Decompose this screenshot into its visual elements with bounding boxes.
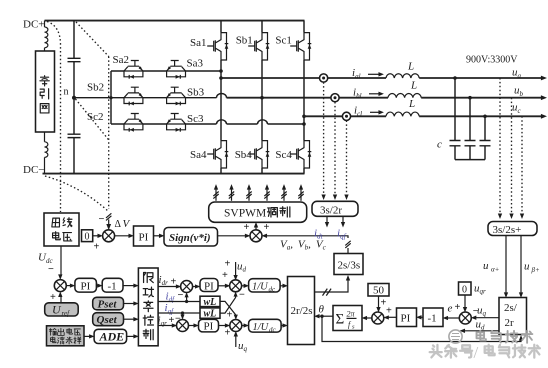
svg-text:−: − xyxy=(178,290,184,301)
wire inverter leg a xyxy=(220,21,222,174)
wire phase a line xyxy=(221,77,544,79)
stationary-to-rotating box 2s/2r xyxy=(499,298,527,335)
svg-text:θ: θ xyxy=(319,304,325,316)
svg-text:Qset: Qset xyxy=(97,314,118,326)
svg-text:Sa1: Sa1 xyxy=(190,37,207,49)
PI controller d-axis box xyxy=(200,279,218,292)
wire clamp row c xyxy=(111,123,304,125)
svg-text:3s/2r: 3s/2r xyxy=(320,204,342,216)
PI controller voltage-balance box xyxy=(134,226,154,246)
wire clamp row a xyxy=(111,70,221,72)
wire DC- rail xyxy=(43,173,305,175)
wire PI to q output junction xyxy=(219,325,227,327)
svg-text:+: + xyxy=(386,306,392,317)
svg-text:Sc4: Sc4 xyxy=(275,149,292,161)
svg-text:−: − xyxy=(48,264,54,275)
wire -1 to limiter xyxy=(123,285,135,287)
wire clamp bus xyxy=(110,71,112,124)
inductor L phase c xyxy=(386,112,419,116)
dotted current sense b xyxy=(334,102,336,196)
crossover hops row c over legs a and b xyxy=(217,120,268,124)
reference box U_ref xyxy=(45,303,78,316)
feedforward box 50 xyxy=(368,284,389,297)
svg-text:Sb3: Sb3 xyxy=(187,87,205,99)
wire theta to 2s/2r bottom xyxy=(322,316,521,341)
sign-function box Sign(v*i) xyxy=(164,228,218,247)
PI controller pll box xyxy=(397,308,417,327)
PI controller dc-voltage box xyxy=(75,278,97,292)
watermark text line2 头条号/电气技术 xyxy=(430,345,442,357)
svg-text:2r/2s: 2r/2s xyxy=(291,305,313,317)
wire Udc junction to PI xyxy=(66,285,72,287)
capacitor dc-link lower xyxy=(68,134,81,137)
wire wL lower cross to d junction xyxy=(220,295,236,314)
transistor Sa3 xyxy=(167,61,186,79)
svg-text:wL: wL xyxy=(204,308,217,319)
SVPWM modulation box xyxy=(209,202,307,222)
svg-text:1/U: 1/U xyxy=(253,322,270,333)
wire pll junction to sigma xyxy=(365,317,372,319)
zero box uqr xyxy=(459,282,472,295)
break mark on dV line xyxy=(106,213,111,220)
wire 2s/2r uq output xyxy=(474,317,499,319)
wire u_q up arrow xyxy=(235,334,237,347)
svg-text:+: + xyxy=(455,302,461,313)
gain box 1/Udc lower xyxy=(249,319,282,332)
dotted voltage sense a xyxy=(499,78,501,215)
wire e junction to -1 xyxy=(446,317,460,319)
zero reference box xyxy=(82,230,93,242)
set-point box Pset xyxy=(93,297,124,310)
wire PI to -1 xyxy=(96,285,99,287)
junction leg b phase xyxy=(260,96,264,100)
svg-text:2s/3s: 2s/3s xyxy=(338,260,361,272)
wire i_dr to junction xyxy=(158,286,178,288)
svg-text:dc: dc xyxy=(269,326,277,334)
wire Udc to junction xyxy=(60,246,62,276)
wire 50 to pll junction xyxy=(378,296,380,309)
dotted voltage sense c xyxy=(521,116,523,214)
wire Qset to limiter xyxy=(124,318,136,320)
junction theta branch xyxy=(320,315,323,318)
svg-text:PI: PI xyxy=(401,313,411,325)
svg-text:ADE: ADE xyxy=(99,330,125,344)
wire 2s/2r ud output xyxy=(463,330,499,332)
svg-text:u: u xyxy=(483,260,489,272)
svg-text:PI: PI xyxy=(139,232,149,244)
svg-text:Sb1: Sb1 xyxy=(236,35,253,47)
svg-text:L: L xyxy=(410,80,417,92)
transistor Sc1 xyxy=(290,33,311,60)
three-phase to stationary box 3s/2s+ xyxy=(488,222,537,236)
wire dV junction to PI xyxy=(114,235,130,237)
wire u_d down arrow xyxy=(235,262,237,277)
summing junction q-output xyxy=(230,320,242,332)
wire i_qr to junction xyxy=(158,325,174,327)
svg-text:L: L xyxy=(408,98,415,110)
summing junction Udc xyxy=(54,280,66,292)
junction leg c phase xyxy=(302,115,306,119)
svg-text:+: + xyxy=(227,310,233,321)
svg-text:c: c xyxy=(437,139,442,151)
svg-text:+: + xyxy=(171,277,177,288)
svg-text:1/U: 1/U xyxy=(252,282,269,293)
wire Uref to junction xyxy=(60,295,62,303)
junction leg c clamp xyxy=(302,122,306,126)
svg-text:50: 50 xyxy=(373,285,385,297)
wire d junction to PI xyxy=(192,286,197,288)
inductor traction bottom coil xyxy=(45,132,48,174)
summing junction pll xyxy=(372,312,384,324)
svg-text:Sb2: Sb2 xyxy=(87,82,104,94)
crossover hop row b over leg a xyxy=(217,94,227,98)
svg-text:β+: β+ xyxy=(531,266,540,274)
svg-text:0: 0 xyxy=(462,285,467,296)
wL box lower xyxy=(200,308,220,318)
wire i_qf line with branch xyxy=(158,312,200,314)
svg-text:2π: 2π xyxy=(347,310,356,319)
dashed sense line Udc xyxy=(47,22,61,213)
svg-text:Σ: Σ xyxy=(336,312,345,328)
svg-text:PI: PI xyxy=(204,321,214,333)
svg-text:0: 0 xyxy=(85,232,90,243)
integrator box sigma 2pi/fs xyxy=(333,306,362,331)
svg-text:Pset: Pset xyxy=(98,298,118,310)
wire dc-link leg xyxy=(73,21,75,174)
junction leg a clamp xyxy=(219,69,223,73)
svg-text:Sa4: Sa4 xyxy=(190,149,207,161)
svg-text:−: − xyxy=(239,290,245,301)
svg-text:dc: dc xyxy=(269,286,277,294)
svg-text:ref: ref xyxy=(62,310,71,318)
transistor Sa2 xyxy=(124,61,143,79)
gain box 1/Udc upper xyxy=(249,279,281,292)
current sensor phase c xyxy=(342,112,350,120)
svg-text:Sa3: Sa3 xyxy=(187,58,204,70)
svg-text:PI: PI xyxy=(204,280,214,292)
set-point box Qset xyxy=(93,313,124,326)
svg-text:+: + xyxy=(94,242,100,253)
svg-text:2r: 2r xyxy=(505,317,515,329)
wire PI to pll junction xyxy=(387,316,397,318)
wire q junction to 1/Udc xyxy=(242,325,246,327)
junction filter cap tap c xyxy=(483,115,487,119)
arrowhead phase b output u_b xyxy=(541,95,547,100)
svg-text:Sa2: Sa2 xyxy=(113,54,130,66)
wire PI to d output junction xyxy=(218,285,227,287)
bus-voltage box 母线电压 xyxy=(44,213,79,246)
svg-text:/: / xyxy=(474,343,479,362)
wire junction to SVPWM xyxy=(255,225,257,230)
summing junction before SVPWM xyxy=(250,230,262,242)
svg-text:2s/: 2s/ xyxy=(504,302,518,314)
wire 3s/2r output i_qf xyxy=(342,216,344,224)
capacitor dc-link upper xyxy=(68,58,81,61)
dashed zoom diagonal bottom xyxy=(45,176,108,211)
svg-text:+: + xyxy=(225,259,231,270)
svg-text:-1: -1 xyxy=(428,313,437,325)
svg-text:Sign(v*i): Sign(v*i) xyxy=(169,232,211,244)
arrowhead phase c output u_c xyxy=(541,114,547,119)
summing junction d-output xyxy=(230,280,242,292)
junction filter cap tap a xyxy=(453,76,457,80)
svg-text:Sc2: Sc2 xyxy=(87,111,104,123)
summing junction d-axis xyxy=(181,281,193,293)
svg-text:+: + xyxy=(50,292,56,303)
PI controller q-axis box xyxy=(199,319,219,332)
svg-text:−: − xyxy=(99,214,105,225)
capacitor filter bank c xyxy=(450,78,491,160)
dashed sense line dV xyxy=(108,57,110,210)
wire Pset to limiter xyxy=(124,303,136,305)
svg-text:PI: PI xyxy=(81,281,91,293)
junction filter cap tap b xyxy=(468,96,472,100)
svg-text:u: u xyxy=(524,261,530,273)
wire wL upper cross to q junction xyxy=(220,301,236,316)
svg-text:Sb4: Sb4 xyxy=(235,149,253,161)
inductor traction top coil xyxy=(45,21,48,51)
arrowhead phase a output u_a xyxy=(541,76,547,81)
transistor Sa1 xyxy=(207,33,228,60)
svg-text:wL: wL xyxy=(204,297,217,308)
wire 0 to dV junction xyxy=(93,235,100,237)
dotted voltage sense b xyxy=(511,98,513,215)
wire Va Vb Vc feed xyxy=(265,236,348,254)
wire Sign to svpwm junction xyxy=(218,235,247,237)
break mark Vc line xyxy=(345,241,350,248)
dashed zoom diagonal top xyxy=(76,22,109,57)
transistor Sc3 xyxy=(167,114,186,132)
transistor Sb4 xyxy=(248,141,269,168)
wire u_alpha to 2s/2r xyxy=(505,236,507,295)
svg-text:e: e xyxy=(448,303,453,315)
wire 0 to uq junction xyxy=(464,295,466,309)
wire DC+ rail xyxy=(45,20,305,22)
gate drive arrows from SVPWM xyxy=(215,188,217,201)
svg-text:DC−: DC− xyxy=(23,164,44,176)
wire inverter leg b xyxy=(261,21,263,174)
ADE box xyxy=(94,329,127,343)
wire PI to Sign xyxy=(154,235,162,237)
wire phase c line xyxy=(304,115,544,117)
node n xyxy=(72,96,76,100)
wire 3s/2r output i_dt xyxy=(326,216,328,224)
stationary 2-3 box 2s/3s xyxy=(334,254,363,275)
wire i_df line with branch xyxy=(158,301,200,303)
wire q junction to PI xyxy=(188,325,195,327)
wire inverter leg c xyxy=(303,21,305,174)
svg-text:900V:3300V: 900V:3300V xyxy=(466,55,518,66)
dashed zoom diagonal mid xyxy=(76,99,109,140)
svg-text:Δ: Δ xyxy=(115,219,122,230)
wL box upper xyxy=(200,296,220,306)
svg-text:+: + xyxy=(222,270,228,281)
transistor Sa4 xyxy=(207,141,228,168)
power-limit control box 限功率控制 xyxy=(138,268,158,346)
summing junction q-axis xyxy=(177,320,189,332)
wire dV arrow xyxy=(108,220,110,227)
gain box -1 pll xyxy=(423,308,443,327)
wire theta to 2r/2s xyxy=(318,315,334,317)
traction network box 牵引网 xyxy=(36,51,55,132)
watermark text line1 电气技术 xyxy=(477,331,486,341)
wire 1/Udc to 2r/2s lower xyxy=(281,325,284,327)
svg-text:Sc1: Sc1 xyxy=(275,35,292,47)
wire neutral n to clamp bus xyxy=(74,97,111,99)
inductor L phase b xyxy=(388,93,421,97)
summing junction dV xyxy=(103,230,115,242)
sampling box 输出电压电流采样 xyxy=(47,326,85,346)
svg-text:Sc3: Sc3 xyxy=(187,113,204,125)
watermark logo circle xyxy=(449,330,462,343)
svg-text:U: U xyxy=(52,303,62,317)
wire 1/Udc to 2r/2s upper xyxy=(280,285,284,287)
transistor Sb1 xyxy=(248,33,269,60)
svg-text:n: n xyxy=(64,87,69,98)
transistor Sb3 xyxy=(167,87,186,105)
wire u_beta to 2s/2r xyxy=(520,236,522,295)
3s/2r transform box xyxy=(312,201,358,216)
junction leg a phase xyxy=(219,76,223,80)
transistor Sc4 xyxy=(290,141,311,168)
summing junction uq xyxy=(459,312,471,324)
rotating-to-stationary box 2r/2s xyxy=(288,277,315,345)
dotted current sense a xyxy=(323,82,325,195)
inductor L phase a xyxy=(386,74,419,78)
svg-text:+: + xyxy=(244,222,250,233)
transistor Sb2 xyxy=(124,87,143,105)
wire -1 to PI xyxy=(420,316,424,318)
wire ADE to limiter xyxy=(127,335,136,337)
svg-text:3s/2s+: 3s/2s+ xyxy=(493,224,522,236)
current sensor phase a xyxy=(320,74,328,82)
svg-text:-1: -1 xyxy=(108,281,117,293)
dotted current sense c xyxy=(346,121,348,196)
wire 2r/2s to 2s/3s with bundle mark xyxy=(315,278,349,292)
svg-text:SVPWM: SVPWM xyxy=(224,208,266,220)
inverter gain box -1 xyxy=(102,278,123,292)
svg-text:α+: α+ xyxy=(491,266,500,274)
current sensor phase b xyxy=(331,94,339,102)
svg-text:DC+: DC+ xyxy=(23,18,44,30)
wire clamp row b / phase b line xyxy=(111,97,217,99)
transistor Sc2 xyxy=(124,114,143,132)
svg-text:+: + xyxy=(264,222,270,233)
wire sampling to ADE xyxy=(84,335,91,337)
svg-text:+: + xyxy=(225,328,231,339)
svg-text:L: L xyxy=(407,61,414,73)
wire d junction to 1/Udc xyxy=(241,285,245,287)
